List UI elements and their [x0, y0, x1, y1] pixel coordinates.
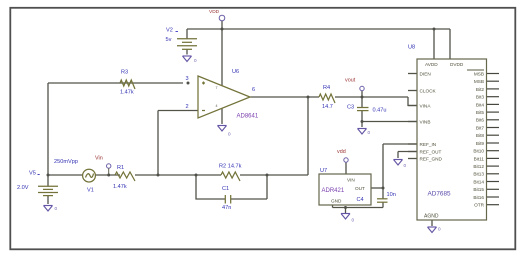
svg-text:VINA: VINA — [420, 103, 432, 108]
svg-text:1.47k: 1.47k — [120, 90, 134, 96]
svg-text:DVDD: DVDD — [450, 62, 464, 67]
svg-text:10n: 10n — [387, 192, 396, 198]
svg-text:Vin: Vin — [95, 156, 103, 162]
svg-text:GND: GND — [331, 199, 342, 204]
svg-text:MSB: MSB — [474, 71, 484, 76]
svg-text:0.47u: 0.47u — [373, 108, 387, 114]
svg-text:C4: C4 — [357, 197, 364, 203]
svg-text:vout: vout — [345, 78, 356, 84]
svg-text:2: 2 — [186, 104, 189, 110]
svg-text:Bit13: Bit13 — [473, 172, 484, 177]
svg-text:OUT: OUT — [355, 186, 365, 191]
svg-text:DIEN: DIEN — [420, 71, 431, 76]
svg-text:Bit8: Bit8 — [476, 133, 484, 138]
svg-text:REF_IN: REF_IN — [420, 142, 437, 147]
svg-text:U7: U7 — [320, 168, 327, 174]
svg-text:6: 6 — [252, 87, 255, 93]
svg-text:Bit12: Bit12 — [473, 164, 484, 169]
svg-text:Bit9: Bit9 — [476, 141, 484, 146]
svg-text:R1: R1 — [117, 165, 124, 171]
svg-text:0: 0 — [404, 163, 407, 168]
svg-text:0: 0 — [368, 130, 371, 135]
svg-text:ADR421: ADR421 — [322, 188, 345, 194]
svg-text:Bit5: Bit5 — [476, 110, 484, 115]
svg-text:7: 7 — [216, 86, 218, 90]
svg-text:AVDD: AVDD — [425, 62, 438, 67]
svg-text:3: 3 — [186, 76, 189, 82]
svg-text:MSB: MSB — [474, 79, 484, 84]
svg-text:V2: V2 — [166, 28, 173, 34]
svg-text:CLOCK: CLOCK — [420, 88, 437, 93]
svg-text:OTR: OTR — [474, 203, 485, 208]
svg-text:0: 0 — [194, 58, 197, 63]
svg-text:Bit14: Bit14 — [473, 179, 484, 184]
svg-text:Bit16: Bit16 — [473, 195, 484, 200]
svg-text:VDD: VDD — [209, 9, 220, 15]
svg-text:REF_GND: REF_GND — [420, 156, 443, 161]
svg-text:14.7: 14.7 — [322, 104, 333, 110]
svg-text:U6: U6 — [232, 69, 239, 75]
svg-text:0: 0 — [352, 218, 355, 223]
svg-text:AD7685: AD7685 — [428, 191, 452, 198]
svg-text:0: 0 — [228, 132, 231, 137]
svg-text:Bit15: Bit15 — [473, 187, 484, 192]
svg-text:0: 0 — [438, 227, 441, 232]
svg-text:C3: C3 — [347, 105, 354, 111]
svg-text:Bit3: Bit3 — [476, 95, 484, 100]
svg-text:1.47k: 1.47k — [113, 184, 127, 190]
svg-text:2.0V: 2.0V — [17, 185, 29, 191]
svg-text:vdd: vdd — [337, 149, 346, 155]
svg-text:Bit4: Bit4 — [476, 102, 484, 107]
svg-text:V5: V5 — [29, 171, 36, 177]
svg-text:Bit2: Bit2 — [476, 87, 484, 92]
svg-text:R3: R3 — [121, 70, 128, 76]
svg-text:Bit6: Bit6 — [476, 118, 484, 123]
svg-text:5v: 5v — [166, 37, 172, 43]
svg-text:4: 4 — [216, 104, 218, 108]
svg-text:0: 0 — [55, 206, 58, 211]
svg-text:REF_OUT: REF_OUT — [420, 149, 442, 154]
svg-text:C1: C1 — [222, 186, 229, 192]
svg-text:Bit7: Bit7 — [476, 125, 484, 130]
svg-text:AD8641: AD8641 — [237, 114, 259, 120]
svg-text:R2 14.7k: R2 14.7k — [219, 164, 242, 170]
svg-text:VINB: VINB — [420, 119, 431, 124]
svg-text:R4: R4 — [323, 85, 330, 91]
svg-text:U8: U8 — [408, 45, 415, 51]
svg-text:AGND: AGND — [424, 214, 439, 220]
svg-text:VIN: VIN — [347, 178, 355, 183]
svg-text:V1: V1 — [87, 188, 94, 194]
svg-text:Bit10: Bit10 — [473, 149, 484, 154]
svg-text:Bit11: Bit11 — [474, 156, 485, 161]
svg-text:250mVpp: 250mVpp — [54, 159, 78, 165]
svg-text:47n: 47n — [222, 205, 231, 211]
